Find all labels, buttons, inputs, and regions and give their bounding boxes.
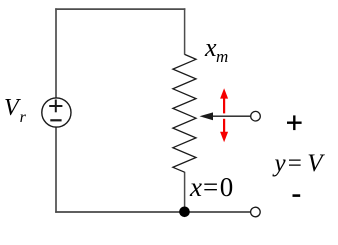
label plus (right) [287, 115, 302, 130]
wiper arrowhead [200, 112, 214, 120]
wire resistor bottom lead [184, 172, 186, 212]
wire left upper [55, 8, 57, 98]
wire right upper [184, 8, 186, 54]
label xm [205, 35, 228, 65]
resistor xm (potentiometer zigzag) [173, 54, 196, 172]
wire top [55, 8, 185, 10]
red motion arrow up [220, 88, 228, 113]
wiper arrow wire [206, 115, 251, 117]
wire left lower [55, 127, 57, 213]
voltage source Vr [42, 98, 71, 127]
red motion arrow down [220, 119, 228, 142]
terminal wiper (open circle) [251, 111, 261, 121]
label Vr [4, 96, 26, 126]
terminal bottom (open circle) [251, 207, 261, 217]
wire bottom [55, 211, 250, 213]
node bottom junction (filled) [179, 207, 190, 218]
label y = V [275, 151, 323, 176]
label x = 0 [190, 174, 233, 201]
label minus (right) [293, 194, 301, 197]
